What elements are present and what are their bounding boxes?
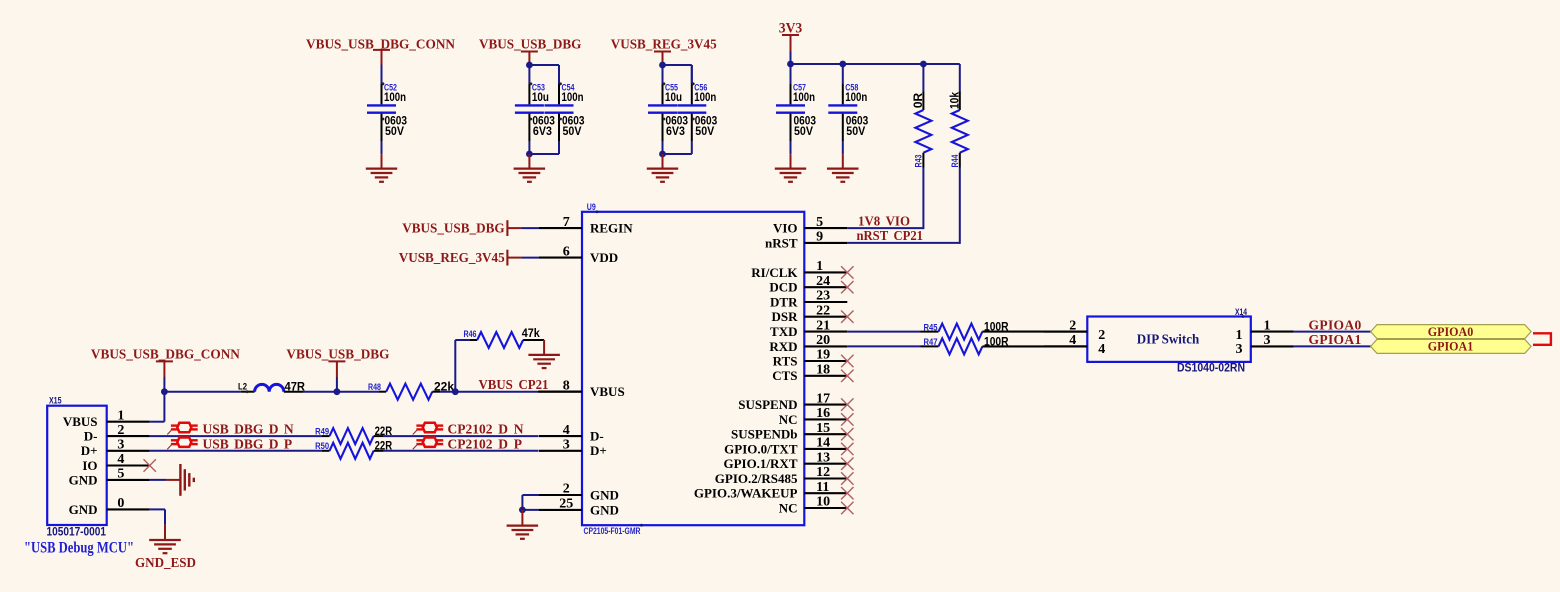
svg-text:GND: GND bbox=[69, 502, 98, 517]
svg-text:DIP Switch: DIP Switch bbox=[1137, 333, 1200, 348]
svg-text:NC: NC bbox=[779, 500, 798, 515]
svg-text:X15: X15 bbox=[49, 396, 62, 407]
svg-text:3: 3 bbox=[117, 438, 124, 453]
svg-text:NC: NC bbox=[779, 412, 798, 427]
svg-text:4: 4 bbox=[563, 423, 570, 438]
svg-text:17: 17 bbox=[816, 391, 830, 406]
svg-text:GND: GND bbox=[69, 472, 98, 487]
svg-text:2: 2 bbox=[117, 423, 124, 438]
svg-text:4: 4 bbox=[1098, 342, 1105, 357]
svg-text:9: 9 bbox=[816, 230, 823, 245]
svg-text:DCD: DCD bbox=[769, 280, 797, 295]
svg-text:VBUS: VBUS bbox=[63, 414, 98, 429]
svg-text:L2: L2 bbox=[238, 381, 247, 392]
svg-text:SUSPENDb: SUSPENDb bbox=[731, 427, 797, 442]
svg-text:11: 11 bbox=[816, 480, 829, 495]
svg-text:GPIOA0: GPIOA0 bbox=[1428, 325, 1474, 339]
svg-text:16: 16 bbox=[816, 406, 830, 421]
svg-text:nRST: nRST bbox=[765, 235, 798, 250]
svg-text:R46: R46 bbox=[464, 329, 477, 340]
svg-text:R45: R45 bbox=[924, 322, 939, 333]
svg-text:2: 2 bbox=[563, 482, 570, 497]
svg-text:4: 4 bbox=[1069, 333, 1076, 348]
svg-text:VUSB_REG_3V45: VUSB_REG_3V45 bbox=[399, 250, 505, 265]
svg-text:10: 10 bbox=[816, 495, 830, 510]
svg-text:1V8 VIO: 1V8 VIO bbox=[858, 213, 910, 228]
svg-text:DTR: DTR bbox=[770, 294, 798, 309]
svg-text:3: 3 bbox=[563, 438, 570, 453]
svg-text:23: 23 bbox=[816, 289, 830, 304]
svg-text:25: 25 bbox=[559, 497, 573, 512]
svg-text:6V3: 6V3 bbox=[666, 124, 685, 138]
svg-text:VBUS_USB_DBG: VBUS_USB_DBG bbox=[402, 221, 505, 236]
svg-text:15: 15 bbox=[816, 421, 830, 436]
svg-text:USB DBG D P: USB DBG D P bbox=[203, 436, 293, 451]
svg-text:"USB Debug MCU": "USB Debug MCU" bbox=[24, 540, 134, 557]
svg-text:10u: 10u bbox=[665, 90, 682, 104]
svg-text:R44: R44 bbox=[950, 154, 961, 167]
svg-text:12: 12 bbox=[816, 465, 830, 480]
svg-text:22R: 22R bbox=[375, 439, 393, 453]
svg-text:10k: 10k bbox=[947, 92, 961, 109]
svg-text:GPIOA1: GPIOA1 bbox=[1428, 340, 1474, 354]
svg-text:47k: 47k bbox=[522, 326, 540, 340]
svg-text:1: 1 bbox=[1264, 318, 1271, 333]
svg-text:USB DBG D N: USB DBG D N bbox=[203, 422, 294, 437]
svg-text:R49: R49 bbox=[315, 427, 329, 438]
svg-text:D-: D- bbox=[84, 429, 98, 444]
svg-text:R50: R50 bbox=[315, 441, 329, 452]
svg-text:100R: 100R bbox=[984, 320, 1009, 334]
svg-text:100n: 100n bbox=[793, 90, 815, 104]
svg-text:VUSB_REG_3V45: VUSB_REG_3V45 bbox=[611, 36, 717, 51]
svg-text:DSR: DSR bbox=[771, 309, 798, 324]
svg-text:VBUS: VBUS bbox=[590, 384, 625, 399]
svg-text:REGIN: REGIN bbox=[590, 221, 633, 236]
svg-text:6V3: 6V3 bbox=[533, 124, 552, 138]
svg-text:RI/CLK: RI/CLK bbox=[751, 265, 798, 280]
svg-text:50V: 50V bbox=[385, 124, 404, 138]
svg-text:VIO: VIO bbox=[773, 221, 798, 236]
svg-text:GPIOA1: GPIOA1 bbox=[1309, 332, 1362, 347]
svg-text:GND: GND bbox=[590, 487, 619, 502]
svg-text:0R: 0R bbox=[911, 92, 925, 108]
svg-text:6: 6 bbox=[563, 244, 570, 259]
svg-text:13: 13 bbox=[816, 450, 830, 465]
svg-text:22: 22 bbox=[816, 303, 830, 318]
svg-text:VBUS_USB_DBG: VBUS_USB_DBG bbox=[479, 36, 582, 51]
svg-text:1: 1 bbox=[117, 408, 124, 423]
svg-text:18: 18 bbox=[816, 363, 830, 378]
svg-text:47R: 47R bbox=[285, 379, 306, 393]
svg-text:D+: D+ bbox=[590, 443, 607, 458]
svg-text:CP2105-F01-GMR: CP2105-F01-GMR bbox=[584, 526, 641, 536]
svg-text:50V: 50V bbox=[563, 124, 582, 138]
svg-text:3: 3 bbox=[1264, 333, 1271, 348]
svg-text:VBUS CP21: VBUS CP21 bbox=[479, 377, 549, 392]
svg-text:50V: 50V bbox=[794, 124, 813, 138]
svg-text:3: 3 bbox=[1236, 342, 1243, 357]
svg-text:GND_ESD: GND_ESD bbox=[135, 555, 196, 570]
svg-text:GPIOA0: GPIOA0 bbox=[1309, 317, 1362, 332]
svg-text:VBUS_USB_DBG: VBUS_USB_DBG bbox=[286, 347, 389, 362]
svg-text:R47: R47 bbox=[924, 337, 938, 348]
svg-text:22R: 22R bbox=[375, 424, 393, 438]
svg-text:GPIO.2/RS485: GPIO.2/RS485 bbox=[715, 471, 798, 486]
svg-text:50V: 50V bbox=[695, 124, 714, 138]
svg-text:DS1040-02RN: DS1040-02RN bbox=[1177, 363, 1245, 375]
svg-text:2: 2 bbox=[1069, 318, 1076, 333]
svg-text:7: 7 bbox=[563, 215, 570, 230]
svg-text:TXD: TXD bbox=[770, 324, 797, 339]
svg-text:D+: D+ bbox=[81, 443, 98, 458]
svg-text:IO: IO bbox=[82, 458, 97, 473]
svg-text:U9: U9 bbox=[587, 202, 596, 213]
svg-text:0: 0 bbox=[117, 496, 124, 511]
svg-text:21: 21 bbox=[816, 318, 830, 333]
svg-text:RTS: RTS bbox=[773, 353, 798, 368]
svg-text:CP2102 D N: CP2102 D N bbox=[448, 422, 524, 437]
svg-text:GND: GND bbox=[590, 502, 619, 517]
svg-text:R43: R43 bbox=[913, 155, 924, 168]
svg-text:GPIO.3/WAKEUP: GPIO.3/WAKEUP bbox=[694, 486, 798, 501]
svg-text:GPIO.0/TXT: GPIO.0/TXT bbox=[724, 441, 798, 456]
svg-text:105017-0001: 105017-0001 bbox=[47, 527, 107, 539]
svg-text:100R: 100R bbox=[984, 334, 1009, 348]
svg-text:VDD: VDD bbox=[590, 250, 618, 265]
svg-text:SUSPEND: SUSPEND bbox=[738, 397, 797, 412]
svg-text:RXD: RXD bbox=[769, 339, 797, 354]
svg-text:VBUS_USB_DBG_CONN: VBUS_USB_DBG_CONN bbox=[91, 347, 240, 362]
svg-text:24: 24 bbox=[816, 274, 830, 289]
svg-text:5: 5 bbox=[117, 467, 124, 482]
svg-text:19: 19 bbox=[816, 348, 830, 363]
svg-text:D-: D- bbox=[590, 429, 604, 444]
svg-text:X14: X14 bbox=[1235, 307, 1248, 318]
svg-text:14: 14 bbox=[816, 436, 830, 451]
svg-text:nRST CP21: nRST CP21 bbox=[857, 228, 924, 243]
svg-text:CP2102 D P: CP2102 D P bbox=[448, 436, 523, 451]
svg-text:CTS: CTS bbox=[772, 368, 797, 383]
svg-text:100n: 100n bbox=[384, 90, 406, 104]
svg-text:50V: 50V bbox=[846, 124, 865, 138]
svg-text:10u: 10u bbox=[532, 90, 549, 104]
svg-text:22k: 22k bbox=[434, 379, 454, 393]
svg-text:20: 20 bbox=[816, 333, 830, 348]
svg-text:5: 5 bbox=[816, 215, 823, 230]
svg-text:GPIO.1/RXT: GPIO.1/RXT bbox=[723, 456, 797, 471]
svg-text:R48: R48 bbox=[368, 382, 381, 393]
svg-text:100n: 100n bbox=[694, 90, 716, 104]
svg-text:100n: 100n bbox=[845, 90, 867, 104]
svg-text:4: 4 bbox=[117, 452, 124, 467]
svg-text:1: 1 bbox=[816, 259, 823, 274]
svg-text:100n: 100n bbox=[562, 90, 584, 104]
